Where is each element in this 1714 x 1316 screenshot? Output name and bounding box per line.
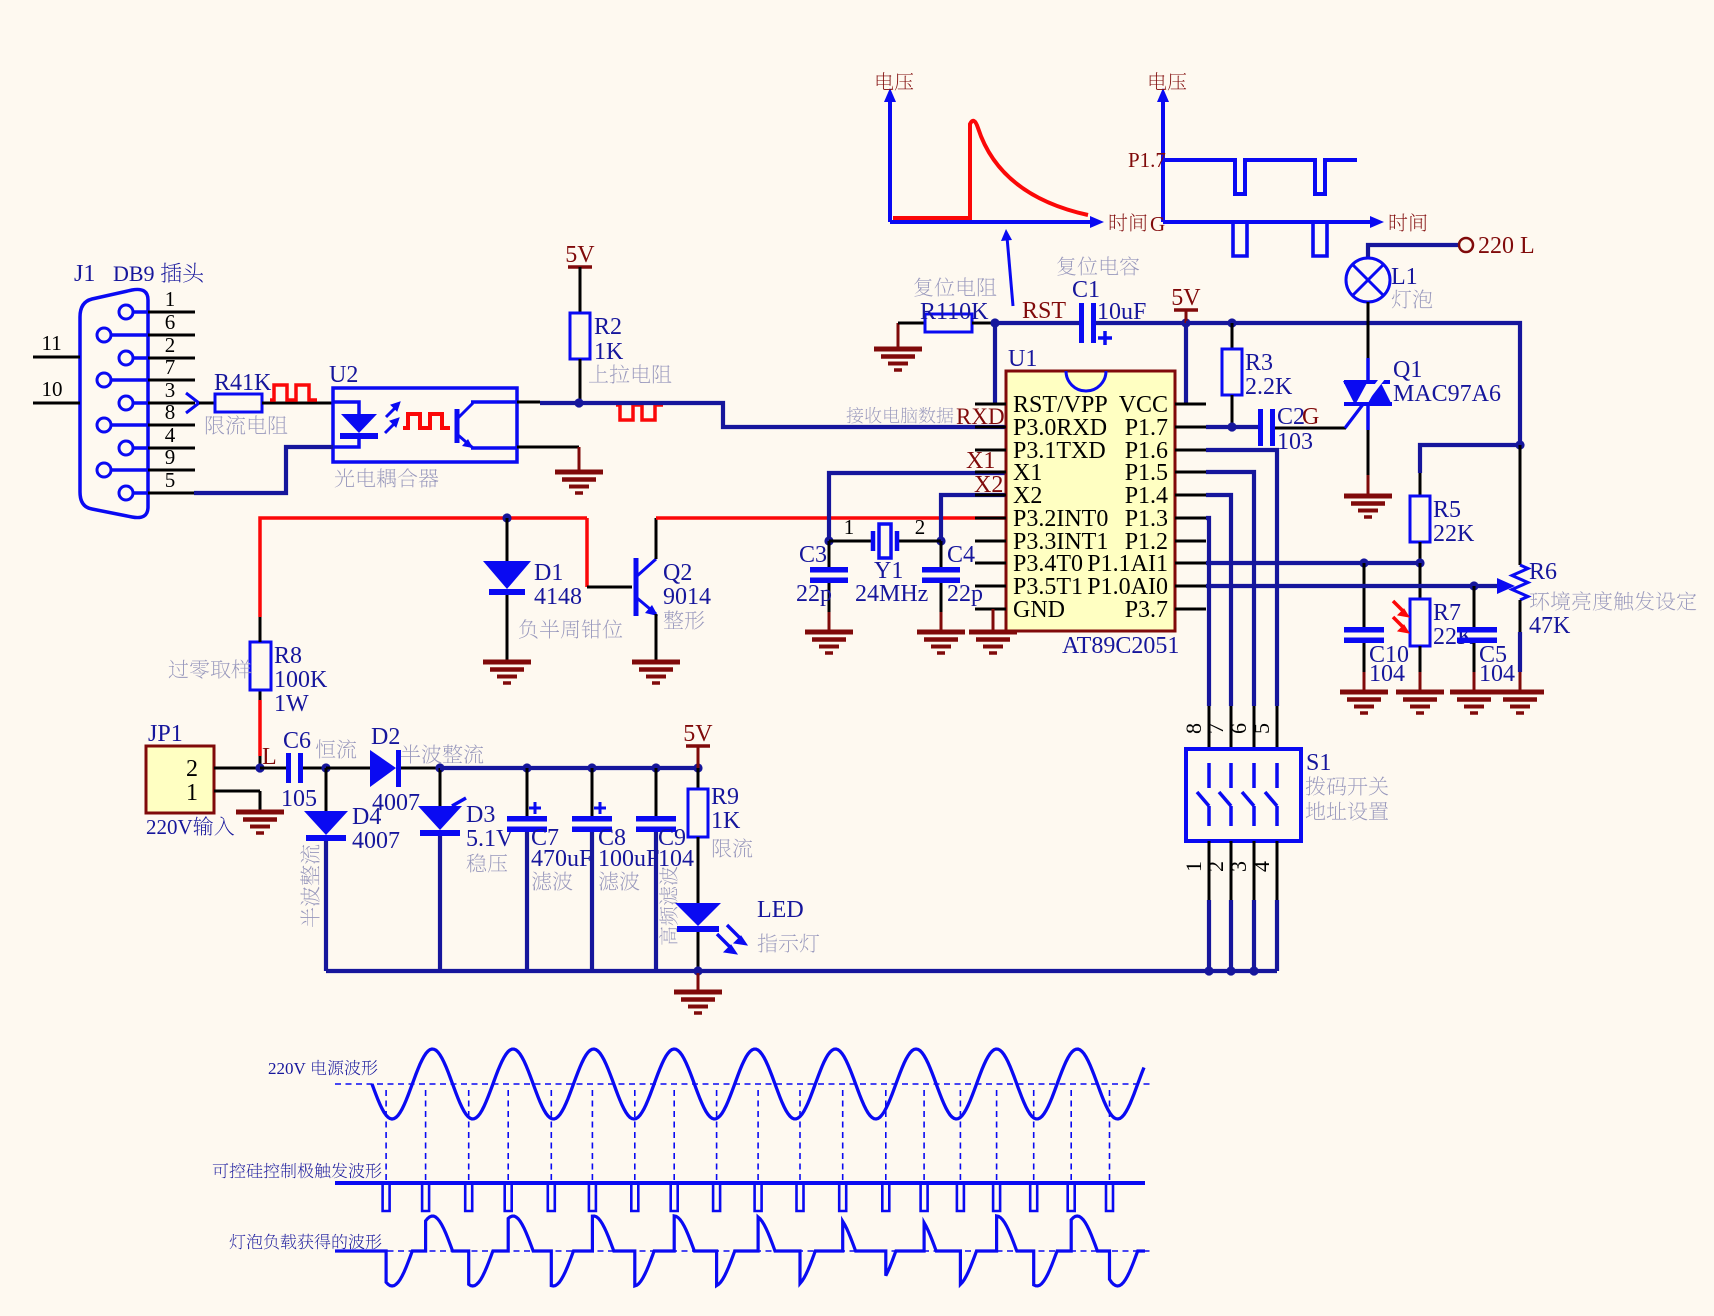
- label U1: [1008, 346, 1037, 372]
- pin number 10: [42, 377, 63, 401]
- pulse waveform marker 2: [616, 405, 663, 420]
- wire C6 to D2: [326, 767, 370, 770]
- wire U1 pin left GND: [975, 608, 1006, 611]
- node crystal pin2: [936, 536, 945, 545]
- node R5 top: [1515, 440, 1524, 449]
- wire R8 to red bus: [260, 518, 587, 617]
- svg-text:2: 2: [186, 756, 198, 782]
- label L1: [1391, 264, 1418, 290]
- power 5V R2 text: [565, 242, 595, 268]
- wire U1 pin right P1.6: [1175, 449, 1206, 452]
- svg-text:1K: 1K: [711, 808, 741, 834]
- svg-text:1: 1: [186, 780, 198, 806]
- wire RST to C1: [995, 321, 1081, 325]
- power 5V R2: [568, 265, 592, 269]
- label R3: [1245, 350, 1273, 376]
- wire 5V stub VCC: [1185, 310, 1188, 323]
- wire D2 right: [401, 767, 440, 770]
- wire D3 top: [439, 768, 442, 806]
- label 复位电容: [1057, 256, 1139, 275]
- label D4 value 4007: [352, 828, 400, 854]
- label C4: [947, 542, 975, 568]
- svg-text:11: 11: [42, 331, 62, 355]
- svg-text:L1: L1: [1391, 264, 1418, 290]
- wire C6 right: [303, 767, 326, 770]
- axis label 时间 graph2: [1390, 213, 1427, 231]
- label 负半周钳位: [519, 619, 622, 638]
- svg-text:RST: RST: [1022, 298, 1066, 324]
- resistor R1: [925, 314, 972, 332]
- resistor R9: [688, 789, 708, 837]
- wire ground rail: [326, 969, 1277, 973]
- wire 5V to R9 node: [697, 746, 700, 768]
- axis label 电压 graph1: [877, 72, 914, 90]
- wire C7 to rail: [525, 832, 529, 971]
- optocoupler U2 phototransistor: [457, 402, 517, 448]
- ground U2 emitter: [555, 472, 603, 493]
- pin label P3.1TXD: [1013, 438, 1106, 464]
- label C5 value 104: [1479, 661, 1515, 687]
- label C2 value 103: [1277, 429, 1313, 455]
- pin label VCC: [1119, 392, 1168, 418]
- axis label 电压 graph2: [1150, 72, 1187, 90]
- wire supply rail: [440, 766, 698, 770]
- label R6: [1529, 559, 1557, 585]
- svg-text:104: 104: [1369, 661, 1405, 687]
- wire red drop to Q2 base: [585, 518, 589, 587]
- wire C2 to gate: [1275, 427, 1346, 430]
- wire pin 9 stub: [148, 469, 195, 472]
- pin label P3.5T1: [1013, 574, 1083, 600]
- label 220V 电源波形: [268, 1059, 377, 1078]
- connector J1 pin 3: [119, 396, 148, 410]
- wire U1 pin left P3.0RXD: [975, 426, 1006, 429]
- waveform sine dashed baseline: [335, 1083, 1150, 1085]
- wire pin 4 stub: [148, 447, 195, 450]
- svg-text:1: 1: [844, 515, 855, 539]
- svg-text:MAC97A6: MAC97A6: [1393, 381, 1501, 407]
- label D3 value 5.1V: [466, 826, 514, 852]
- svg-text:103: 103: [1277, 429, 1313, 455]
- graph2 waveform: [1163, 160, 1357, 194]
- wire U1 pin left X2: [975, 494, 1006, 497]
- transistor Q2: [636, 558, 658, 616]
- svg-text:2: 2: [1203, 861, 1228, 872]
- wire U1 pin right P1.4: [1175, 494, 1206, 497]
- wire U1 pin right P1.0AI0: [1175, 585, 1206, 588]
- svg-text:D3: D3: [466, 802, 495, 828]
- label J1: [74, 261, 95, 287]
- pin label JP1-2: [186, 756, 198, 782]
- capacitor C2: [1258, 409, 1275, 446]
- svg-text:24MHz: 24MHz: [855, 581, 928, 607]
- wire JP1 pin1: [214, 790, 260, 793]
- label R3 value 2.2K: [1245, 374, 1293, 400]
- optocoupler U2 internal LED: [333, 402, 378, 447]
- waveform lamp dashed baseline: [335, 1250, 1150, 1252]
- label 灯泡: [1392, 290, 1432, 309]
- label R8 value 100K: [274, 667, 328, 693]
- label C1 value 10uF: [1097, 299, 1146, 325]
- resistor R3: [1222, 349, 1242, 395]
- capacitor C7 plus: [529, 802, 541, 814]
- svg-text:R8: R8: [274, 643, 302, 669]
- label R1 value: [920, 299, 989, 325]
- resistor R4: [215, 394, 262, 412]
- connector J1 pin 9: [97, 463, 148, 477]
- svg-text:C1: C1: [1072, 277, 1100, 303]
- label Q1: [1393, 357, 1422, 383]
- wire JP1 pin1 down: [259, 791, 262, 810]
- wire S1 pin2 down black: [1230, 841, 1233, 900]
- ground R6: [1496, 692, 1544, 713]
- switch S1 unit 1: [1197, 763, 1209, 826]
- label R9 value 1K: [711, 808, 741, 834]
- resistor R6 zigzag: [1512, 565, 1528, 600]
- node C7: [522, 763, 531, 772]
- label C6 value 105: [281, 786, 317, 812]
- label 环境亮度触发设定: [1530, 591, 1696, 610]
- pin number 9: [165, 445, 176, 469]
- diode D3 tail: [452, 798, 466, 806]
- svg-text:C2: C2: [1277, 404, 1305, 430]
- wire R1 right: [972, 322, 995, 325]
- svg-text:9: 9: [165, 445, 176, 469]
- pin number S1-5: [1249, 723, 1274, 734]
- pin label P1.2: [1125, 529, 1168, 555]
- graph1 axis arrows: [884, 88, 1104, 228]
- svg-text:C3: C3: [799, 542, 827, 568]
- label 光电耦合器: [335, 468, 439, 487]
- svg-text:C4: C4: [947, 542, 975, 568]
- pulse waveform marker: [270, 385, 317, 400]
- waveform lamp load: [335, 1216, 1145, 1286]
- diode D4 cathode bar: [306, 835, 346, 841]
- node R9 top: [693, 763, 702, 772]
- ground Q1: [1344, 496, 1392, 517]
- ground C4: [917, 632, 965, 653]
- wire S1 pin3 down black: [1253, 841, 1256, 900]
- wire C3 bottom: [828, 583, 831, 612]
- node label G: [1302, 404, 1319, 430]
- wire R5 top stub: [1419, 473, 1422, 496]
- pin label P1.4: [1125, 483, 1168, 509]
- wire U1 pin right VCC: [1175, 403, 1206, 406]
- pin number S1-7: [1203, 723, 1228, 734]
- wire VCC riser: [1184, 323, 1188, 404]
- svg-text:10: 10: [42, 377, 63, 401]
- wire C5 top: [1473, 586, 1476, 628]
- power 5V VCC text: [1171, 285, 1201, 311]
- wire R9 to LED: [697, 837, 700, 903]
- svg-text:4007: 4007: [352, 828, 400, 854]
- node VCC: [1181, 318, 1190, 327]
- pin number 7: [165, 355, 176, 379]
- wire S1 pin3 down: [1252, 900, 1256, 971]
- svg-text:R3: R3: [1245, 350, 1273, 376]
- label C10 value 104: [1369, 661, 1405, 687]
- resistor R7 LDR: [1410, 599, 1430, 646]
- label 上拉电阻: [589, 364, 671, 383]
- ground U1 GND: [969, 632, 1017, 653]
- label R5 value 22K: [1433, 521, 1475, 547]
- lamp L1: [1346, 258, 1390, 302]
- wire INT0 red: [656, 516, 1006, 520]
- svg-text:220 L: 220 L: [1478, 233, 1535, 259]
- label 接收电脑数据: [847, 407, 954, 424]
- wire C4 top: [940, 541, 943, 568]
- node label RXD: [956, 404, 1005, 429]
- pin label P1.3: [1125, 506, 1168, 532]
- wire R3 bottom: [1231, 395, 1234, 427]
- pin number S1-2: [1203, 861, 1228, 872]
- wire U1 pin left P3.1TXD: [975, 449, 1006, 452]
- wire P1.6 to S1 pin5: [1206, 450, 1277, 706]
- wire R1 left: [898, 322, 925, 325]
- capacitor C8 plus: [594, 802, 606, 814]
- label D2 value 4007: [372, 790, 420, 816]
- wire P1.5 to S1 pin6: [1206, 472, 1254, 706]
- wire U1 pin left P3.4T0: [975, 562, 1006, 565]
- wire VCC rail right: [1186, 323, 1520, 445]
- pin number 3: [165, 378, 176, 402]
- label 半波整流 vert: [300, 845, 319, 927]
- capacitor C9: [636, 816, 676, 832]
- svg-text:22p: 22p: [796, 581, 832, 607]
- svg-text:9014: 9014: [663, 584, 711, 610]
- wire pin 1 stub: [148, 311, 195, 314]
- node label L: [262, 744, 277, 770]
- wire C8 top: [591, 768, 594, 817]
- svg-text:1W: 1W: [274, 691, 309, 717]
- svg-text:5V: 5V: [1171, 285, 1201, 311]
- graph2 below-axis pulses: [1233, 224, 1327, 256]
- label 指示灯: [758, 934, 820, 953]
- pin label P1.7: [1125, 415, 1168, 441]
- wire S1 pin5 stub: [1276, 706, 1279, 749]
- wire U1 pin left X1: [975, 471, 1006, 474]
- wire pin 10: [33, 402, 80, 405]
- wire zero-cross red: [259, 756, 262, 768]
- wire S1 pin1 down black: [1208, 841, 1211, 900]
- wire C1 to VCC: [1096, 321, 1186, 325]
- label Q2: [663, 560, 692, 586]
- label C4 value 22p: [947, 581, 983, 607]
- label 高频滤波 vert: [659, 867, 678, 945]
- connector J1 pin 8: [97, 418, 148, 432]
- pin label X2: [1013, 483, 1042, 509]
- R7 light arrows: [1393, 601, 1409, 633]
- label C10: [1369, 642, 1409, 668]
- connector J1 pin 2: [119, 351, 148, 365]
- svg-text:47K: 47K: [1529, 613, 1571, 639]
- waveform 220V sine: [372, 1049, 1144, 1119]
- connector J1 pin 4: [119, 441, 148, 455]
- svg-text:100K: 100K: [274, 667, 328, 693]
- wire R9 top: [697, 768, 700, 789]
- label Y1 value 24MHz: [855, 581, 928, 607]
- wire triac gnd: [1367, 475, 1370, 494]
- label D1: [534, 560, 563, 586]
- wire lamp top: [1368, 245, 1459, 258]
- svg-text:GND: GND: [1013, 597, 1065, 623]
- wire crystal left: [829, 540, 872, 543]
- pin number 4: [165, 423, 176, 447]
- wire lamp to triac: [1367, 302, 1370, 358]
- wire L to C6: [260, 767, 286, 770]
- wire crystal right: [898, 540, 941, 543]
- label 拨码开关: [1306, 776, 1388, 795]
- pin number S1-3: [1226, 861, 1251, 872]
- wire P1.3 to S1 pin8: [1206, 518, 1209, 706]
- svg-text:P3.7: P3.7: [1125, 597, 1168, 623]
- label 过零取样: [169, 659, 252, 678]
- pin number 6: [165, 310, 176, 334]
- connector J1 shell outline: [80, 289, 148, 517]
- wire U1 pin right P1.2: [1175, 540, 1206, 543]
- label R7: [1433, 600, 1461, 626]
- node L: [255, 763, 264, 772]
- svg-text:105: 105: [281, 786, 317, 812]
- svg-text:104: 104: [1479, 661, 1515, 687]
- node LED rail: [693, 966, 702, 975]
- capacitor C6: [286, 753, 303, 783]
- wire R8 top stub: [259, 617, 262, 642]
- label R2: [594, 314, 622, 340]
- label 限流 R9: [713, 838, 752, 857]
- pin number 11: [42, 331, 62, 355]
- pin label P3.3INT1: [1013, 529, 1108, 555]
- connector J1 pin 1: [119, 305, 148, 319]
- svg-text:R7: R7: [1433, 600, 1461, 626]
- axis label P1.7: [1128, 148, 1166, 172]
- wire pin 5 stub: [148, 492, 195, 495]
- wire D4 to rail: [324, 841, 328, 971]
- wire P1.4 to S1 pin7: [1206, 495, 1231, 706]
- wire C9 to rail: [654, 832, 658, 971]
- svg-text:U2: U2: [329, 362, 358, 388]
- ground C5: [1450, 692, 1498, 713]
- wire C10 top: [1363, 563, 1366, 628]
- svg-text:LED: LED: [757, 897, 804, 923]
- wire S1 pin2 down: [1229, 900, 1233, 971]
- ground D1: [483, 662, 531, 683]
- label R8 power 1W: [274, 691, 309, 717]
- wire JP1 pin2: [214, 767, 260, 770]
- label C9 value 104: [658, 846, 694, 872]
- svg-text:R6: R6: [1529, 559, 1557, 585]
- wire pin 11: [33, 356, 80, 359]
- node label X1: [966, 448, 995, 474]
- svg-text:6: 6: [1226, 723, 1251, 734]
- ground C10: [1340, 692, 1388, 713]
- wire to Q2 base: [587, 586, 632, 589]
- svg-text:J1: J1: [74, 261, 95, 287]
- R6 wiper arrow: [1497, 578, 1515, 594]
- wire triac bottom: [1367, 430, 1370, 475]
- capacitor C4: [922, 567, 960, 583]
- wire U2 emitter down: [578, 447, 581, 470]
- svg-text:5: 5: [165, 468, 176, 492]
- node R5 R7 junction: [1415, 558, 1424, 567]
- svg-text:5V: 5V: [683, 721, 713, 747]
- svg-text:8: 8: [165, 400, 176, 424]
- node C8: [587, 763, 596, 772]
- label R6 value 47K: [1529, 613, 1571, 639]
- svg-text:Q2: Q2: [663, 560, 692, 586]
- svg-text:R5: R5: [1433, 497, 1461, 523]
- wire C10 bottom: [1363, 643, 1366, 672]
- label S1: [1306, 750, 1331, 776]
- label 滤波 C7: [532, 872, 573, 891]
- label 半波整流: [401, 744, 483, 763]
- label LED: [757, 897, 804, 923]
- label C8 value 100uF: [598, 846, 659, 872]
- wire C8 to rail: [590, 832, 594, 971]
- wire C9 top: [655, 768, 658, 817]
- wire U1 pin left P3.3INT1: [975, 540, 1006, 543]
- capacitor C8: [572, 816, 612, 832]
- label 灯泡负载获得的波形: [230, 1234, 382, 1250]
- node C5 junction: [1469, 581, 1478, 590]
- svg-text:7: 7: [1203, 723, 1228, 734]
- label 稳压: [467, 853, 508, 872]
- label 复位电阻: [914, 277, 996, 296]
- LED triangle: [675, 903, 721, 926]
- wire C5 gnd: [1473, 672, 1476, 690]
- connector J1 pin 5: [119, 486, 148, 500]
- wire U1 pin right P1.1AI1: [1175, 562, 1206, 565]
- pin label P1.1AI1: [1087, 551, 1168, 577]
- node label 220 L: [1478, 233, 1535, 259]
- pin number 5: [165, 468, 176, 492]
- label C7 value 470uF: [531, 846, 592, 872]
- label Y1: [874, 558, 903, 584]
- node S1 pin2 rail: [1226, 966, 1235, 975]
- svg-text:220V: 220V: [268, 1059, 310, 1078]
- wire R4 to U2: [262, 402, 333, 405]
- wire pin 8 stub: [148, 424, 195, 427]
- svg-text:C6: C6: [283, 728, 311, 754]
- label C5: [1479, 642, 1507, 668]
- pin number S1-4: [1249, 861, 1274, 872]
- wire R7 top: [1419, 563, 1422, 599]
- node P1.7 R3: [1227, 422, 1236, 431]
- label 限流电阻: [206, 415, 288, 434]
- pin number 2: [165, 333, 176, 357]
- switch S1 unit 3: [1242, 763, 1254, 826]
- op-amp U1 AT89C2051 body: [1006, 371, 1175, 631]
- label 整形: [664, 610, 705, 629]
- graph1 curve: [893, 121, 1088, 218]
- wire U1 pin right P1.7: [1175, 426, 1206, 429]
- axis label G: [1150, 212, 1165, 236]
- label R5: [1433, 497, 1461, 523]
- label Q1 value MAC97A6: [1393, 381, 1501, 407]
- wire pin3 to R4: [199, 402, 215, 405]
- crystal Y1: [873, 524, 897, 558]
- graph2 axes: [1163, 100, 1372, 222]
- capacitor C1: [1079, 303, 1096, 343]
- pin label P3.7: [1125, 597, 1168, 623]
- wire C5 bottom: [1473, 643, 1476, 672]
- svg-text:R9: R9: [711, 784, 739, 810]
- node S1 pin1 rail: [1204, 966, 1213, 975]
- svg-text:R2: R2: [594, 314, 622, 340]
- wire X2 net: [941, 495, 1006, 541]
- label C9: [658, 825, 686, 851]
- wire C4 bottom: [940, 583, 943, 612]
